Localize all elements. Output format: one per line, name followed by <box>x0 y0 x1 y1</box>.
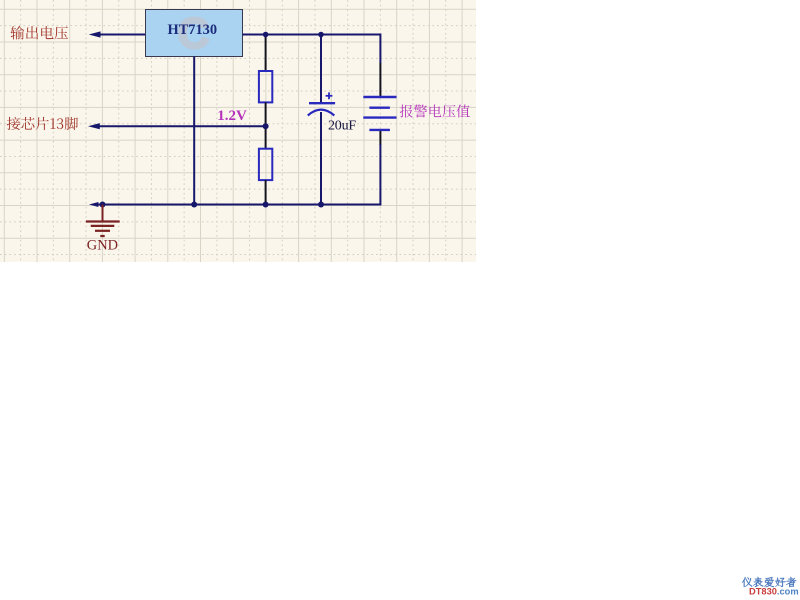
net label 报警电压值 <box>400 105 470 118</box>
logo DT830.com <box>749 587 799 597</box>
wire: bottom ground bus <box>89 144 380 207</box>
value label 20uF <box>328 118 356 133</box>
capacitor C1 top pin <box>320 35 322 104</box>
net label 接芯片13脚 <box>7 117 78 130</box>
resistor R2 bottom pin <box>265 180 267 204</box>
ground symbol <box>86 205 120 237</box>
IC U1 HT7130 regulator box <box>146 9 243 58</box>
svg-text:1.2V: 1.2V <box>217 108 247 124</box>
junction dot gnd tap <box>100 202 106 208</box>
junction dot R2 bottom <box>263 202 269 208</box>
logo 仪表爱好者 <box>742 577 796 587</box>
junction dot IC gnd <box>191 202 197 208</box>
svg-text:DT830.com: DT830.com <box>749 587 799 597</box>
junction dot at R1 top <box>263 32 269 38</box>
resistor R2 top pin <box>265 126 267 149</box>
resistor R1 bottom pin <box>265 102 267 126</box>
wire: top net from IC right pin to battery corner <box>243 35 381 64</box>
battery B1 top pin <box>379 63 381 96</box>
resistor R1 <box>259 71 272 102</box>
wire: output net from IC left pin to arrow <box>89 31 146 37</box>
svg-text:HT7130: HT7130 <box>168 22 218 38</box>
battery B1 bottom pin <box>379 131 381 145</box>
resistor R1 top pin <box>265 35 267 72</box>
junction dot C1 bottom <box>318 202 324 208</box>
net label 输出电压 <box>11 26 69 40</box>
junction dot divider node <box>263 123 269 129</box>
svg-text:20uF: 20uF <box>328 118 356 133</box>
net label 1.2V <box>217 108 247 124</box>
wire: feedback net to arrow (接芯片13脚) <box>88 123 266 129</box>
svg-text:GND: GND <box>87 238 118 254</box>
label GND <box>87 238 118 254</box>
junction dot at C1 top <box>318 32 324 38</box>
resistor R2 <box>259 149 272 180</box>
capacitor C1 polarized <box>308 92 335 115</box>
capacitor C1 bottom pin <box>320 112 322 205</box>
battery B1 <box>363 97 396 130</box>
wire: IC ground pin down to bottom bus <box>193 57 195 205</box>
